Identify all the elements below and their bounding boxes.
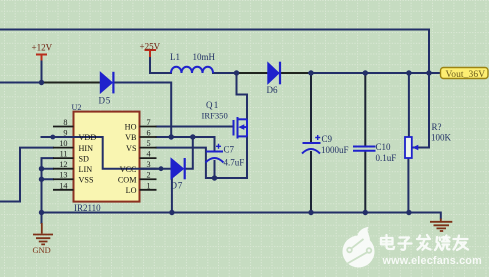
svg-text:HIN: HIN	[79, 144, 94, 153]
svg-text:D6: D6	[267, 85, 278, 95]
svg-text:+25V: +25V	[140, 42, 161, 52]
svg-text:COM: COM	[118, 175, 137, 184]
svg-text:6: 6	[147, 129, 151, 138]
svg-text:11: 11	[60, 150, 68, 159]
svg-text:4.7uF: 4.7uF	[224, 158, 245, 168]
svg-text:7: 7	[147, 118, 151, 127]
svg-text:10: 10	[59, 139, 67, 148]
svg-text:+12V: +12V	[32, 43, 53, 53]
svg-text:VCC: VCC	[120, 165, 137, 174]
svg-text:www.elecfans.com: www.elecfans.com	[382, 255, 482, 267]
svg-text:IR2110: IR2110	[74, 203, 101, 213]
svg-text:VB: VB	[125, 133, 137, 142]
svg-text:R?: R?	[432, 122, 442, 132]
svg-text:1000uF: 1000uF	[321, 145, 349, 155]
svg-text:9: 9	[63, 129, 67, 138]
svg-text:VSS: VSS	[79, 175, 94, 184]
svg-text:0.1uF: 0.1uF	[376, 153, 397, 163]
svg-text:C9: C9	[322, 134, 333, 144]
svg-text:SD: SD	[79, 154, 90, 163]
svg-text:VDD: VDD	[79, 133, 97, 142]
svg-text:HO: HO	[125, 123, 137, 132]
svg-text:13: 13	[59, 171, 67, 180]
svg-text:C7: C7	[224, 145, 235, 155]
svg-text:IRF350: IRF350	[202, 111, 228, 121]
svg-text:12: 12	[59, 160, 67, 169]
svg-text:100K: 100K	[431, 133, 452, 143]
svg-text:L1: L1	[170, 52, 180, 62]
svg-text:10mH: 10mH	[193, 52, 216, 62]
svg-text:Q1: Q1	[206, 100, 219, 110]
svg-text:GND: GND	[33, 246, 51, 255]
svg-text:14: 14	[59, 181, 67, 190]
svg-text:U2: U2	[72, 103, 82, 112]
svg-text:D7: D7	[171, 181, 184, 191]
svg-text:LO: LO	[126, 186, 137, 195]
svg-text:VS: VS	[126, 144, 137, 153]
svg-text:LIN: LIN	[79, 165, 93, 174]
svg-text:Vout_36V: Vout_36V	[446, 70, 486, 80]
svg-text:5: 5	[147, 139, 151, 148]
svg-text:C10: C10	[376, 142, 392, 152]
svg-text:1: 1	[147, 181, 151, 190]
svg-text:D5: D5	[99, 96, 112, 106]
svg-text:4: 4	[147, 150, 151, 159]
svg-text:3: 3	[147, 160, 151, 169]
svg-text:8: 8	[63, 118, 67, 127]
svg-text:2: 2	[147, 171, 151, 180]
